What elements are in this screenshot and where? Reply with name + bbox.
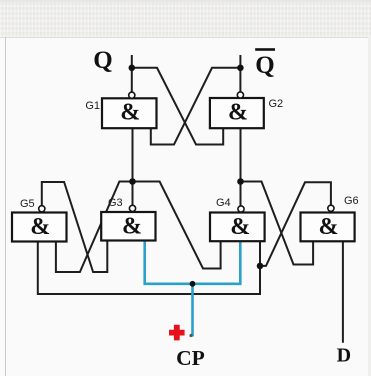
node G3 output junction [129, 178, 136, 185]
svg-text:CP: CP [176, 346, 205, 370]
wire G3 output to G4 input [133, 182, 221, 269]
gate G2 [210, 92, 283, 128]
G5 output bubble [39, 206, 45, 212]
svg-text:G5: G5 [20, 198, 35, 210]
G6 body [301, 213, 355, 242]
svg-text:G6: G6 [344, 195, 359, 207]
wire Q to G2 input (cross) [132, 68, 223, 145]
gate G3 [101, 197, 155, 241]
G6 output bubble [328, 205, 334, 211]
node G6 output junction [257, 263, 264, 270]
wire G3 output to G5 input [56, 182, 133, 273]
marker red cross [169, 325, 185, 341]
node Q-bar junction [237, 65, 244, 72]
wire G3 output to G1 input [132, 128, 134, 205]
wire Q output stub [131, 55, 133, 92]
wire Q-bar output stub [239, 55, 241, 92]
svg-text:&: & [319, 214, 339, 240]
wire G4 output to G2 input [240, 128, 242, 205]
svg-text:G2: G2 [269, 98, 284, 110]
wire G6 output to G4 input [260, 182, 331, 266]
gate G6 [301, 195, 359, 241]
gate G5 [12, 198, 67, 242]
svg-text:Q: Q [255, 52, 274, 79]
wire G5 output to G3 input [42, 182, 108, 272]
gate G4 [210, 197, 265, 241]
wire CP to G3 and G4 inputs [145, 241, 241, 284]
svg-text:&: & [30, 214, 50, 240]
G5 body [12, 213, 67, 242]
G1 output bubble [129, 92, 135, 98]
wire Q-bar to G1 input (cross) [151, 68, 241, 145]
node CP junction [190, 281, 196, 287]
svg-text:&: & [228, 99, 248, 125]
CP line tip [189, 334, 192, 337]
wire G4 output to G6 input [241, 182, 314, 265]
svg-text:&: & [120, 99, 140, 125]
G1 body [102, 98, 157, 128]
wire D input [342, 241, 344, 342]
node Q junction [129, 65, 136, 72]
wire CP (blue) [145, 241, 241, 337]
G2 output bubble [237, 92, 243, 98]
G4 output bubble [238, 206, 244, 212]
svg-text:&: & [122, 214, 142, 240]
G3 output bubble [129, 205, 135, 211]
G3 body [101, 212, 155, 241]
svg-text:G3: G3 [108, 197, 123, 209]
svg-text:G4: G4 [216, 197, 231, 209]
svg-text:D: D [337, 345, 351, 367]
svg-text:&: & [230, 214, 250, 240]
wire CP terminal lead [191, 284, 194, 337]
svg-text:Q: Q [93, 47, 112, 74]
G2 body [210, 98, 264, 128]
wire G6 output to G5 input (bottom run) [38, 241, 260, 294]
svg-text:G1: G1 [85, 100, 100, 112]
gate G1 [85, 92, 156, 128]
G4 body [210, 213, 265, 242]
node G4 output junction [237, 178, 244, 185]
